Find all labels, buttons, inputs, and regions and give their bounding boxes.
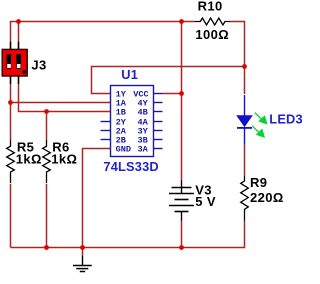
wire R5 bottom to rail xyxy=(10,184,12,248)
wire VCC branch vertical from rail to battery top xyxy=(181,22,183,180)
svg-text:1kΩ: 1kΩ xyxy=(16,152,42,167)
node R6/rail junction xyxy=(44,245,49,250)
pin stub 4B xyxy=(154,111,163,113)
svg-text:LED3: LED3 xyxy=(269,111,303,126)
svg-text:J3: J3 xyxy=(31,57,46,72)
wire LED cathode to R9 top xyxy=(244,145,246,176)
pin stub 2Y xyxy=(101,121,111,123)
node rail/VCC-branch junction xyxy=(179,19,184,24)
wire 1A line to IC xyxy=(11,102,111,104)
pin stub 4Y xyxy=(154,102,163,104)
node battery/rail junction xyxy=(179,245,184,250)
node 1B/R6 junction xyxy=(44,109,49,114)
resistor R10 xyxy=(195,0,230,42)
pin stub 4A xyxy=(154,121,163,123)
node ground/rail junction xyxy=(80,245,85,250)
IC U1 74LS33D xyxy=(101,67,163,174)
svg-text:3A: 3A xyxy=(138,145,149,155)
wire R6 bottom to rail xyxy=(46,184,48,248)
wire J3 pin4 down then right as 1B line xyxy=(19,76,111,112)
pin stub 3Y xyxy=(154,130,163,132)
svg-text:4B: 4B xyxy=(138,108,148,118)
wire battery minus to rail xyxy=(181,221,183,248)
wire bottom ground rail xyxy=(11,221,245,248)
wire R6 top xyxy=(46,112,48,141)
emission arrow 2 xyxy=(252,126,258,132)
svg-text:1B: 1B xyxy=(116,108,126,118)
wire top rail from J3 pin1 to R10 left xyxy=(11,22,196,50)
svg-text:GND: GND xyxy=(116,145,131,155)
pin stub 3A xyxy=(154,148,163,150)
wire R10 right to vertical drop xyxy=(230,22,244,95)
connector J3 xyxy=(2,42,46,84)
wire VCC pin to branch xyxy=(163,93,182,95)
ground xyxy=(73,256,92,272)
svg-text:1kΩ: 1kΩ xyxy=(51,152,77,167)
wire GND pin left and down xyxy=(83,149,111,256)
svg-text:100Ω: 100Ω xyxy=(195,27,229,42)
wire J3 pin3 down to R5 and 1A line xyxy=(10,76,12,140)
pin stub 3B xyxy=(154,139,163,141)
wire 1Y output up and over to LED net xyxy=(92,67,245,94)
node VCC junction xyxy=(179,91,184,96)
resistor R6 xyxy=(43,139,78,183)
svg-text:R10: R10 xyxy=(198,0,223,14)
node 1A junction xyxy=(8,100,13,105)
pin stub 2A xyxy=(101,130,111,132)
resistor R9 xyxy=(241,175,284,221)
node rail/J3-pin2 junction xyxy=(16,19,21,24)
battery V3 xyxy=(169,180,216,221)
svg-text:74LS33D: 74LS33D xyxy=(103,159,158,174)
node LED anode / 1Y net junction xyxy=(242,64,247,69)
LED LED3 xyxy=(236,95,303,145)
pin stub VCC xyxy=(154,93,163,95)
svg-text:U1: U1 xyxy=(121,67,138,82)
svg-text:5 V: 5 V xyxy=(195,194,216,209)
emission arrow 1 xyxy=(255,113,261,119)
wire J3 pin2 up to rail xyxy=(18,22,20,50)
svg-text:R9: R9 xyxy=(250,175,267,190)
resistor R5 xyxy=(7,139,42,183)
svg-text:220Ω: 220Ω xyxy=(250,190,284,205)
pin stub 2B xyxy=(101,139,111,141)
